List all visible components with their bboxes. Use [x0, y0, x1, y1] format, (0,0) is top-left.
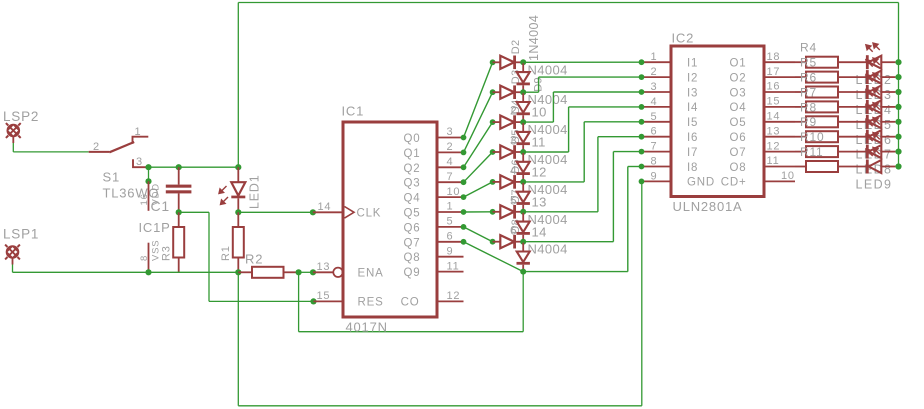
- wire row 8 to I8: [523, 271, 628, 273]
- svg-text:1: 1: [447, 201, 454, 213]
- svg-text:I5: I5: [687, 117, 698, 129]
- LED3 emission arrows: [866, 58, 880, 67]
- svg-text:Q4: Q4: [404, 193, 421, 205]
- svg-text:GND: GND: [687, 177, 715, 189]
- junction LED7 on supply bus: [895, 134, 901, 140]
- svg-text:Q7: Q7: [404, 237, 421, 249]
- junction diode row 7: [520, 239, 526, 245]
- wire +V rail: [149, 166, 239, 168]
- wire Q3 to diode row 4: [464, 152, 493, 182]
- IC1P pin 8 VSS stub: [148, 243, 150, 273]
- svg-text:I7: I7: [687, 147, 698, 159]
- svg-text:8: 8: [651, 156, 658, 168]
- junction LED2 on supply bus: [895, 59, 901, 65]
- svg-text:R8: R8: [800, 100, 817, 114]
- switch S1 pin 3: [133, 159, 149, 167]
- svg-text:IC2: IC2: [672, 31, 695, 46]
- svg-text:R11: R11: [800, 145, 824, 159]
- svg-text:15: 15: [767, 96, 781, 108]
- junction LED5 on supply bus: [895, 104, 901, 110]
- svg-text:4: 4: [651, 96, 658, 108]
- IC2 pin 10 (CD+) stub: [764, 180, 795, 182]
- svg-text:LSP2: LSP2: [3, 109, 39, 124]
- svg-text:17: 17: [767, 66, 781, 78]
- junction ENA pin end: [310, 269, 316, 275]
- wire LSP1 to GND rail: [12, 265, 14, 273]
- IC2 pin 5 (I5) stub: [642, 121, 672, 123]
- LED4 emission arrows: [866, 73, 880, 82]
- junction +V at LED1: [235, 164, 241, 170]
- svg-text:LED1: LED1: [248, 175, 262, 209]
- svg-text:13: 13: [767, 125, 781, 137]
- IC2 pin 12 (O7) stub: [764, 151, 795, 153]
- svg-text:I3: I3: [687, 87, 698, 99]
- IC2 pin 13 (O6) stub: [764, 136, 795, 138]
- svg-text:Q6: Q6: [404, 222, 421, 234]
- diode D3 (series from Q1): [490, 89, 496, 95]
- switch S1 pin 1 contact: [133, 137, 149, 144]
- IC2 pin 16 (O3) stub: [764, 91, 795, 93]
- svg-text:2: 2: [93, 141, 100, 153]
- junction LED9 on supply bus: [895, 163, 901, 169]
- svg-text:7: 7: [447, 171, 454, 183]
- wire Q1 to diode row 2: [464, 92, 493, 152]
- IC2 pin 2 (I2) stub: [642, 76, 672, 78]
- LED9 emission arrows: [866, 147, 880, 156]
- junction diode row 2: [520, 89, 526, 95]
- wire resistor R4 to LED2: [838, 61, 866, 63]
- svg-text:RES: RES: [358, 297, 384, 309]
- switch S1 pin 2 stub: [89, 151, 110, 153]
- svg-text:1: 1: [651, 51, 658, 63]
- svg-text:1: 1: [135, 126, 142, 138]
- wire feedback R2 to diode chain bottom: [298, 272, 300, 331]
- resistor R10: [795, 151, 806, 153]
- wire left vertical of loop (+V down to rail): [237, 3, 239, 168]
- wire +V top rail of loop: [238, 2, 898, 4]
- wire row 5 to I5: [523, 181, 584, 183]
- wire node A to CLK: [238, 211, 313, 213]
- svg-text:6: 6: [651, 126, 658, 138]
- IC2 pin 1 (I1) stub: [642, 61, 672, 63]
- svg-text:10: 10: [447, 186, 461, 198]
- svg-text:O3: O3: [730, 87, 747, 99]
- resistor R11: [795, 166, 806, 168]
- LED LED4: [866, 85, 869, 99]
- LED LED3: [866, 70, 869, 84]
- resistor R3: [178, 212, 180, 227]
- junction +V at C1: [176, 164, 182, 170]
- IC1 Q8 pin stub, pin number 9: [437, 256, 464, 258]
- junction node A (LED1/R1/CLK): [235, 209, 241, 215]
- svg-text:Q0: Q0: [404, 133, 421, 145]
- diode D4 (series from Q2): [490, 119, 496, 125]
- IC1 RES pin stub: [314, 300, 344, 302]
- svg-text:3: 3: [136, 156, 143, 168]
- resistor R6: [795, 91, 806, 93]
- junction +V at S1: [145, 164, 151, 170]
- IC2 pin 14 (O5) stub: [764, 121, 795, 123]
- junction C1/R3/RES node: [176, 209, 182, 215]
- junction CLK pin end: [310, 209, 316, 215]
- diode D8 (series from Q6): [490, 239, 496, 245]
- svg-text:2: 2: [447, 141, 454, 153]
- svg-text:N4004: N4004: [528, 62, 568, 77]
- junction diode row 5: [520, 179, 526, 185]
- LED2 emission arrows: [866, 43, 880, 52]
- svg-text:CLK: CLK: [357, 207, 382, 219]
- diode D11 (chain): [522, 123, 524, 132]
- svg-text:I6: I6: [687, 132, 698, 144]
- svg-text:8: 8: [139, 255, 150, 261]
- svg-text:9: 9: [447, 245, 454, 257]
- svg-text:I4: I4: [687, 102, 698, 114]
- svg-text:5: 5: [651, 111, 658, 123]
- svg-text:R9: R9: [800, 115, 817, 129]
- wire Q5 to diode row 6: [464, 211, 493, 213]
- LED LED7: [866, 130, 869, 144]
- svg-text:R2: R2: [245, 252, 263, 267]
- svg-text:R6: R6: [800, 71, 817, 85]
- wire row 7 to I7: [523, 241, 613, 243]
- svg-text:16: 16: [767, 81, 781, 93]
- wire LED supply bus (right vertical): [898, 3, 900, 167]
- capacitor C1: [178, 167, 180, 184]
- wire Q0 to diode row 1: [464, 62, 493, 137]
- svg-text:12: 12: [447, 290, 461, 302]
- svg-text:O5: O5: [730, 117, 747, 129]
- svg-text:10: 10: [532, 105, 547, 120]
- IC2 pin 15 (O4) stub: [764, 106, 795, 108]
- LED8 emission arrows: [866, 133, 880, 142]
- svg-text:4017N: 4017N: [346, 320, 388, 335]
- wire VDD branch: [148, 167, 150, 181]
- junction LED6 on supply bus: [895, 119, 901, 125]
- svg-text:R4: R4: [800, 41, 817, 55]
- svg-text:11: 11: [532, 135, 546, 150]
- svg-text:Q3: Q3: [404, 178, 421, 190]
- svg-text:I8: I8: [687, 162, 698, 174]
- svg-text:12: 12: [532, 165, 547, 180]
- IC2 pin 7 (I7) stub: [642, 151, 672, 153]
- wire resistor R6 to LED4: [838, 91, 866, 93]
- IC2 pin 4 (I4) stub: [642, 106, 672, 108]
- wire R2 to ENA: [299, 271, 313, 273]
- IC1 Q4 pin stub, pin number 10: [437, 196, 464, 198]
- LED LED1: [237, 167, 239, 182]
- IC1 ENA pin stub with bubble: [313, 271, 333, 273]
- resistor R9: [795, 136, 806, 138]
- resistor R4: [795, 61, 806, 63]
- diode D6 (series from Q4): [490, 179, 496, 185]
- diode D13 (chain): [522, 183, 524, 192]
- svg-text:R10: R10: [800, 130, 824, 144]
- LED6 emission arrows: [866, 103, 880, 112]
- IC2 pin 9 (GND) stub: [642, 180, 672, 182]
- svg-text:4: 4: [447, 156, 454, 168]
- svg-text:14: 14: [318, 201, 332, 213]
- junction LED4 on supply bus: [895, 89, 901, 95]
- svg-text:7: 7: [651, 141, 658, 153]
- LED LED6: [866, 115, 869, 129]
- resistor R5: [795, 76, 806, 78]
- svg-text:14: 14: [532, 224, 547, 239]
- diode D9 (chain): [522, 63, 524, 72]
- svg-text:Q5: Q5: [404, 208, 421, 220]
- svg-text:CD+: CD+: [721, 177, 747, 189]
- svg-text:3: 3: [651, 81, 658, 93]
- svg-text:6: 6: [447, 231, 454, 243]
- wire row 3 to I3: [523, 121, 553, 123]
- junction R1 bottom on GND rail: [235, 269, 241, 275]
- solder pad LSP2: [6, 123, 21, 138]
- svg-text:5: 5: [447, 216, 454, 228]
- wire resistor R11 to LED9: [838, 166, 866, 168]
- wire row 1 to I1: [523, 61, 641, 63]
- switch S1 blade: [109, 142, 134, 152]
- svg-text:LED9: LED9: [856, 178, 893, 192]
- IC2 box: [671, 46, 764, 197]
- svg-text:3: 3: [447, 126, 454, 138]
- svg-text:IC1P: IC1P: [139, 220, 171, 235]
- resistor R7: [795, 106, 806, 108]
- LED1 emission arrows: [219, 186, 228, 205]
- IC1 CO pin stub: [437, 300, 464, 302]
- LED5 emission arrows: [866, 88, 880, 97]
- IC2 pin 11 (O8) stub: [764, 166, 795, 168]
- IC1 Q1 pin stub, pin number 2: [437, 151, 464, 153]
- svg-text:O7: O7: [730, 147, 747, 159]
- junction R2 right / feedback: [296, 269, 302, 275]
- LED LED9: [866, 160, 869, 174]
- IC1 Q5 pin stub, pin number 1: [437, 211, 464, 213]
- LED LED8: [866, 145, 869, 159]
- resistor R1: [237, 212, 239, 227]
- wire resistor R8 to LED6: [838, 121, 866, 123]
- IC2 pin 18 (O1) stub: [764, 61, 795, 63]
- junction IC1P VSS on GND rail: [145, 269, 151, 275]
- svg-text:O4: O4: [730, 102, 747, 114]
- svg-text:I2: I2: [687, 72, 698, 84]
- svg-text:Q1: Q1: [404, 148, 421, 160]
- junction diode row 6: [520, 209, 526, 215]
- junction LED8 on supply bus: [895, 149, 901, 155]
- junction VDD pin: [145, 178, 151, 184]
- wire resistor R10 to LED8: [838, 151, 866, 153]
- wire resistor R7 to LED5: [838, 106, 866, 108]
- diode D15 (chain): [522, 243, 524, 252]
- wire GND rail: [13, 271, 239, 273]
- IC1 Q0 pin stub, pin number 3: [437, 137, 464, 139]
- svg-text:13: 13: [532, 194, 547, 209]
- IC1 CLK pin stub: [313, 211, 343, 213]
- wire row 4 to I4: [523, 151, 568, 153]
- svg-text:13: 13: [317, 261, 331, 273]
- svg-text:1N4004: 1N4004: [527, 15, 541, 61]
- wire resistor R9 to LED7: [838, 136, 866, 138]
- junction diode row 4: [520, 149, 526, 155]
- svg-text:16: 16: [139, 193, 150, 205]
- IC1 clock input mark: [345, 207, 355, 219]
- svg-text:R3: R3: [161, 245, 173, 261]
- diode D7 (series from Q5): [490, 209, 496, 215]
- resistor R8: [795, 121, 806, 123]
- IC2 pin 6 (I6) stub: [642, 136, 672, 138]
- solder pad LSP1: [5, 245, 20, 260]
- junction RES pin end: [310, 298, 316, 304]
- svg-text:ENA: ENA: [358, 267, 384, 279]
- wire Q2 to diode row 3: [464, 122, 493, 167]
- IC1 Q7 pin stub, pin number 6: [437, 241, 464, 243]
- IC1 Q3 pin stub, pin number 7: [437, 181, 464, 183]
- svg-text:I1: I1: [687, 58, 698, 70]
- wire row 2 to I2: [523, 91, 538, 93]
- svg-text:11: 11: [767, 155, 780, 167]
- junction diode row 3: [520, 119, 526, 125]
- LED7 emission arrows: [866, 118, 880, 127]
- svg-text:O1: O1: [730, 58, 747, 70]
- svg-text:18: 18: [767, 51, 781, 63]
- diode D2 (series from Q0): [490, 59, 496, 65]
- svg-text:ULN2801A: ULN2801A: [673, 199, 743, 214]
- wire resistor R5 to LED3: [838, 76, 866, 78]
- svg-text:D2: D2: [510, 39, 522, 54]
- wire Q6 to diode row 7: [464, 227, 493, 242]
- diode D10 (chain): [522, 93, 524, 102]
- svg-text:12: 12: [767, 140, 781, 152]
- wire LSP2 to switch: [12, 143, 14, 152]
- IC1P pin 16 VDD stub: [148, 181, 150, 211]
- LED LED5: [866, 100, 869, 114]
- wire bottom edge of loop: [238, 405, 642, 407]
- LED LED2: [866, 55, 869, 69]
- svg-text:CO: CO: [401, 297, 420, 309]
- diode D5 (series from Q3): [490, 149, 496, 155]
- svg-text:S1: S1: [103, 170, 121, 185]
- IC2 pin 17 (O2) stub: [764, 76, 795, 78]
- resistor R2: [238, 271, 252, 273]
- wire IC2 GND drop: [641, 181, 643, 405]
- svg-text:Q2: Q2: [404, 163, 421, 175]
- svg-text:R5: R5: [800, 56, 817, 70]
- IC1 Q9 pin stub, pin number 11: [437, 271, 464, 273]
- junction diode chain bottom (row 8): [520, 269, 526, 275]
- svg-text:Q8: Q8: [404, 252, 421, 264]
- wire Q7 to diode chain bottom junction: [464, 242, 524, 272]
- svg-text:R1: R1: [220, 245, 232, 261]
- wire Q4 to diode row 5: [464, 182, 493, 197]
- junction diode row 1: [520, 59, 526, 65]
- IC1 Q2 pin stub, pin number 4: [437, 166, 464, 168]
- svg-text:O8: O8: [730, 162, 747, 174]
- svg-text:Q9: Q9: [404, 267, 421, 279]
- svg-text:IC1: IC1: [342, 104, 365, 119]
- svg-text:11: 11: [447, 260, 460, 272]
- svg-text:O2: O2: [730, 72, 747, 84]
- IC2 pin 3 (I3) stub: [642, 91, 672, 93]
- wire row 6 to I6: [523, 211, 598, 213]
- diode D12 (chain): [522, 153, 524, 162]
- svg-text:O6: O6: [730, 132, 747, 144]
- svg-text:10: 10: [781, 170, 795, 182]
- wire C1 node to RES pin: [179, 211, 209, 213]
- junction LED3 on supply bus: [895, 74, 901, 80]
- svg-text:C1: C1: [151, 198, 171, 214]
- IC1 box: [343, 122, 437, 317]
- svg-text:2: 2: [651, 66, 658, 78]
- svg-text:9: 9: [651, 170, 658, 182]
- svg-text:15: 15: [317, 290, 331, 302]
- diode D14 (chain): [522, 213, 524, 222]
- IC2 pin 8 (I8) stub: [642, 166, 672, 168]
- svg-text:LSP1: LSP1: [3, 227, 39, 242]
- svg-text:R7: R7: [800, 85, 817, 99]
- svg-text:N4004: N4004: [528, 242, 568, 257]
- svg-text:14: 14: [767, 111, 781, 123]
- IC1 Q6 pin stub, pin number 5: [437, 226, 464, 228]
- wire left vertical of loop (GND rail down to bottom): [237, 272, 239, 406]
